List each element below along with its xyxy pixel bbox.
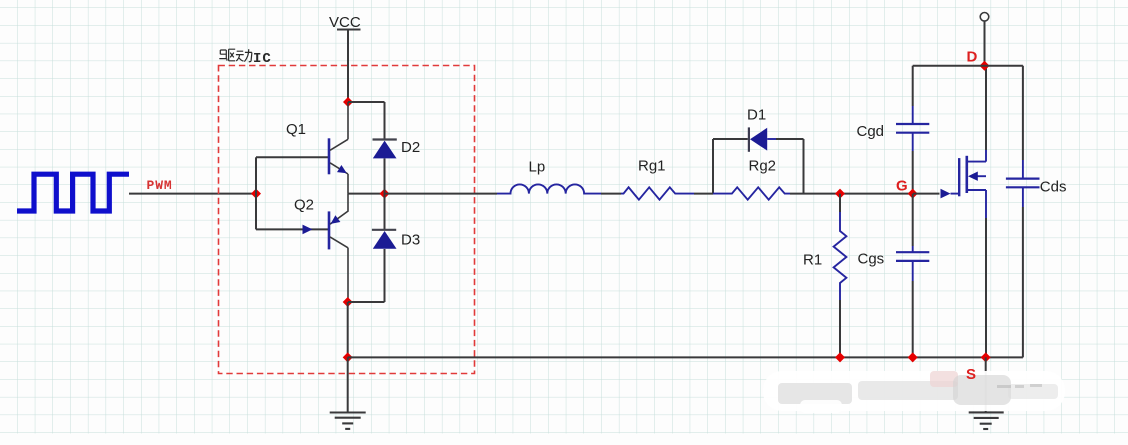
svg-text:Rg1: Rg1: [638, 158, 666, 175]
diode D2: [373, 140, 397, 159]
PWM square wave: [17, 174, 129, 211]
svg-text:G: G: [896, 178, 908, 195]
VCC underline: [337, 29, 361, 31]
svg-text:D: D: [967, 49, 978, 66]
resistor R1: [834, 212, 847, 300]
wire Rg2 to G: [790, 193, 913, 195]
bottom node Q2 collector: [343, 297, 353, 307]
node input: [251, 189, 261, 199]
node rail R1: [835, 352, 845, 362]
wire node to R1: [839, 194, 841, 212]
svg-text:Cgs: Cgs: [858, 251, 885, 268]
svg-text:Lp: Lp: [529, 159, 546, 176]
wire Cds to rail: [1022, 207, 1024, 357]
wire Q2 base: [256, 228, 328, 230]
ground wire right: [985, 357, 987, 412]
svg-text:D2: D2: [401, 139, 420, 156]
branch top wire left: [713, 138, 748, 140]
svg-text:R1: R1: [803, 252, 822, 269]
wire Q2 collector to ground rail: [347, 302, 349, 357]
svg-text:VCC: VCC: [329, 14, 361, 31]
svg-text:Q2: Q2: [294, 197, 314, 214]
wire Rg1 to branch: [694, 193, 713, 195]
gate arrow: [941, 189, 951, 199]
wire Q1 base: [256, 156, 328, 158]
wire node G to Cgs: [912, 194, 914, 246]
node G: [908, 189, 918, 199]
diode D1: [749, 127, 776, 151]
wire terminal to node D: [984, 21, 986, 65]
ground wire left: [347, 357, 349, 412]
base fork vertical: [255, 157, 257, 229]
wire D row to Cds: [1022, 66, 1024, 160]
svg-text:D3: D3: [401, 232, 420, 249]
svg-text:PWM: PWM: [147, 178, 173, 193]
VCC wire down: [347, 31, 349, 103]
wire node to diode column top: [348, 101, 385, 103]
diode column verticals: [384, 102, 386, 302]
svg-text:Cgd: Cgd: [857, 123, 885, 140]
branch top wire right: [776, 138, 804, 140]
watermark blur: [763, 371, 1065, 413]
wire input to node: [129, 193, 256, 195]
D row wire: [913, 65, 1023, 67]
svg-text:D1: D1: [747, 107, 766, 124]
branch right vertical: [803, 139, 805, 194]
svg-text:Rg2: Rg2: [749, 158, 777, 175]
capacitor Cds: [1022, 160, 1024, 179]
transistor Q1: [329, 102, 348, 194]
wire bottom diode link: [348, 301, 385, 303]
capacitor Cgs: [912, 246, 914, 252]
label 驱动IC: [219, 49, 252, 62]
svg-text:Cds: Cds: [1040, 179, 1067, 196]
wire R1 to rail: [839, 300, 841, 357]
branch left vertical: [712, 139, 714, 194]
node S: [981, 352, 991, 362]
node R1 top: [835, 189, 845, 199]
svg-text:Q1: Q1: [286, 121, 306, 138]
capacitor Cgd: [912, 106, 914, 124]
node mid: [380, 189, 390, 199]
wire Cgs to rail: [912, 281, 914, 357]
gate lead: [951, 193, 959, 195]
wire D row to Cgd: [912, 66, 914, 106]
MOSFET source vertical: [985, 218, 987, 357]
transistor Q2: [329, 194, 348, 302]
drain terminal circle: [980, 12, 989, 21]
gate wire: [913, 193, 940, 195]
diode D3: [372, 230, 397, 249]
ground symbol right: [969, 412, 1004, 429]
svg-text:IC: IC: [253, 51, 272, 67]
node D: [980, 61, 990, 71]
Q1 emitter junction wire: [348, 193, 385, 195]
node vcc: [343, 97, 353, 107]
node rail Cgs: [908, 352, 918, 362]
Q2 base arrow: [303, 225, 313, 235]
driver IC dashed box: [219, 66, 475, 374]
svg-text:S: S: [966, 366, 976, 383]
wire Lp to Rg1: [601, 193, 621, 195]
resistor Rg1: [621, 187, 694, 199]
inductor Lp: [497, 184, 601, 193]
bottom rail: [348, 356, 1023, 358]
main wire mid to Lp: [385, 193, 498, 195]
MOSFET drain vertical: [985, 66, 987, 150]
wire Cgd to node G: [912, 151, 914, 194]
resistor Rg2: [713, 187, 790, 199]
ground symbol left: [330, 413, 366, 429]
node ground rail left: [343, 352, 353, 362]
MOSFET U1: [959, 150, 986, 218]
